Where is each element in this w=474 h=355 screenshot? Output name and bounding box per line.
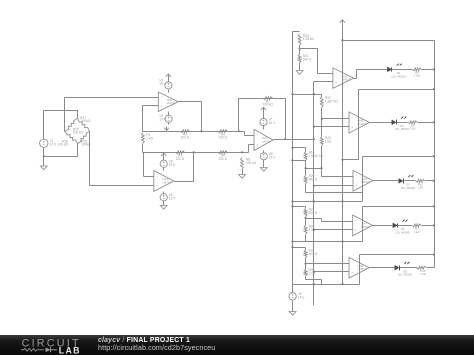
node Q — [341, 159, 343, 161]
wire OA1 inv input — [143, 106, 159, 132]
resistor R1 — [141, 133, 153, 144]
wire — [143, 152, 243, 154]
node V2 — [291, 240, 293, 242]
svg-text:−: − — [351, 261, 353, 265]
node J — [299, 48, 301, 50]
node AC — [305, 262, 307, 264]
wire OA2 output — [175, 153, 194, 182]
wire comp4 vcc — [363, 207, 435, 242]
node N — [321, 118, 323, 120]
svg-text:−: − — [335, 71, 337, 75]
node Z — [433, 205, 435, 207]
wire — [397, 122, 408, 124]
wire — [422, 69, 435, 71]
ground — [239, 175, 246, 179]
voltage source V5 — [160, 159, 176, 167]
resistor R4 — [218, 130, 228, 140]
wire — [305, 235, 307, 242]
wire — [163, 201, 165, 206]
node R — [433, 121, 435, 123]
wire — [285, 99, 287, 140]
node S5 — [291, 205, 293, 207]
wire — [293, 94, 322, 96]
wire comp3 vee link — [306, 192, 363, 194]
wire — [142, 144, 144, 153]
voltage source V3 — [159, 79, 172, 90]
node P — [433, 88, 435, 90]
svg-text:−: − — [355, 174, 357, 178]
LED D1 — [387, 64, 405, 79]
node S3 — [342, 200, 344, 202]
resistor R10 — [304, 151, 324, 161]
wire — [44, 110, 78, 112]
wire — [44, 156, 78, 158]
op-amp OA1 — [158, 92, 178, 111]
op-amp OA6 — [353, 170, 373, 191]
wire comp4 plus — [314, 229, 353, 231]
ground — [260, 168, 267, 172]
svg-text:+: + — [256, 143, 258, 147]
voltage source V4 — [159, 114, 172, 122]
wire right rail — [434, 41, 436, 268]
wire — [422, 225, 435, 227]
wire — [168, 90, 170, 93]
node T — [313, 185, 315, 187]
node R10a — [291, 147, 293, 149]
wire comp2 ref — [322, 118, 350, 120]
svg-text:LAB: LAB — [59, 345, 81, 355]
wire — [392, 69, 413, 71]
node S2 — [291, 200, 293, 202]
resistor R21 — [298, 54, 312, 63]
wire — [427, 267, 435, 269]
svg-text:+: + — [156, 184, 158, 188]
wire — [263, 151, 265, 153]
wire comp3 out — [373, 180, 399, 182]
node AE — [433, 254, 435, 256]
wire comp2 vcc — [359, 90, 435, 160]
ground — [296, 71, 303, 75]
svg-text:+: + — [355, 229, 357, 233]
svg-text:−: − — [355, 219, 357, 223]
resistor R22 — [320, 96, 338, 108]
flag VCC — [340, 20, 345, 24]
wire comp5 plus — [314, 271, 350, 273]
node U — [433, 155, 435, 157]
resistor R33 — [304, 268, 316, 276]
LED D4 — [393, 220, 410, 235]
node AB — [433, 224, 435, 226]
wire comp3 plus — [314, 185, 354, 187]
op-amp OA7 — [353, 215, 373, 236]
wire — [263, 126, 265, 130]
wire — [168, 112, 170, 116]
wire — [89, 132, 91, 186]
node F — [241, 151, 243, 153]
node W — [433, 180, 435, 182]
resistor R18 — [78, 131, 92, 146]
wire — [163, 192, 165, 194]
wire VEE return — [293, 201, 363, 203]
wire OA3 output — [274, 139, 314, 141]
resistor R17 — [77, 116, 91, 132]
ground — [40, 166, 47, 170]
wire comp1 plus — [314, 81, 333, 83]
wire — [293, 160, 306, 162]
wire — [263, 112, 265, 119]
ground — [289, 312, 296, 316]
wire — [293, 31, 300, 33]
wire — [242, 170, 244, 175]
voltage source V9 — [289, 292, 305, 300]
wire — [163, 158, 165, 161]
node I — [341, 39, 343, 41]
wire — [163, 168, 165, 171]
flag VEE — [164, 127, 169, 131]
wire — [43, 148, 45, 167]
svg-text:−: − — [256, 133, 258, 137]
wire comp2 out — [370, 122, 394, 124]
wire — [263, 160, 265, 168]
wire — [168, 123, 170, 125]
resistor R5 — [218, 151, 228, 161]
wire comp3 vcc — [363, 157, 435, 202]
wire comp4 ref — [306, 219, 353, 222]
wire — [306, 146, 322, 169]
resistor R29 — [304, 225, 316, 235]
resistor R15 — [65, 118, 83, 134]
wire — [400, 267, 418, 269]
node C — [200, 130, 202, 132]
wire — [143, 131, 239, 133]
voltage source V6 — [160, 193, 176, 201]
voltage source V7 — [260, 118, 276, 126]
resistor R7 — [263, 97, 274, 107]
wire VEE return2 — [293, 241, 363, 243]
wire — [77, 111, 79, 119]
wire comp4 out — [373, 225, 393, 227]
flag VCC — [166, 74, 171, 79]
node K — [433, 68, 435, 70]
node V4 — [291, 246, 293, 248]
resistor R27 — [304, 208, 318, 217]
svg-text:+: + — [335, 81, 337, 85]
svg-text:+: + — [355, 184, 357, 188]
wire — [398, 225, 412, 227]
wire — [243, 145, 255, 153]
wire OA1 output — [179, 102, 202, 132]
wire comp1 ref — [300, 49, 333, 74]
node G — [284, 138, 286, 140]
node D — [238, 130, 240, 132]
wire — [299, 63, 301, 71]
wire R31 feed — [293, 248, 306, 251]
resistor R16 — [58, 131, 78, 146]
wire — [239, 132, 255, 136]
node M — [313, 93, 315, 95]
wire — [306, 277, 322, 285]
node R10b — [291, 159, 293, 161]
wire — [43, 111, 45, 140]
svg-text:−: − — [156, 174, 158, 178]
wire — [305, 184, 307, 193]
resistor R8 — [412, 68, 421, 78]
resistor R2 — [180, 130, 190, 140]
wire — [293, 148, 306, 152]
node L — [291, 93, 293, 95]
op-amp OA3 — [254, 129, 273, 150]
voltage source V8 — [260, 152, 276, 160]
node AF — [313, 283, 315, 285]
wire — [305, 217, 307, 226]
wire bus1 — [292, 32, 294, 285]
wire — [90, 185, 154, 187]
LED D3 — [399, 175, 415, 190]
wire — [65, 98, 66, 132]
resistor R20 — [298, 34, 314, 46]
footer title text — [98, 337, 190, 344]
wire comp5 ref — [306, 263, 350, 265]
op-amp OA2 — [154, 171, 174, 192]
wire — [418, 122, 435, 124]
wire comp2 plus — [314, 126, 350, 128]
svg-text:−: − — [161, 95, 163, 99]
svg-text:+: + — [351, 126, 353, 130]
wire — [342, 24, 344, 285]
wire — [404, 180, 416, 182]
wire — [238, 99, 240, 132]
wire R27 feed — [293, 207, 306, 209]
node S — [305, 167, 307, 169]
wire V9 rail — [293, 284, 360, 286]
wire — [321, 95, 323, 97]
wire OA2 inv input — [144, 153, 154, 177]
node X — [305, 217, 307, 219]
resistor R11 — [416, 179, 425, 189]
wire — [305, 258, 307, 270]
resistor R12 — [412, 224, 421, 234]
node V3 — [342, 240, 344, 242]
flag VCC — [161, 153, 166, 158]
wire — [77, 144, 79, 157]
ground — [160, 206, 167, 210]
LED D2 — [392, 117, 409, 132]
wire — [321, 108, 323, 137]
CircuitLab logo — [0, 335, 96, 355]
resistor R25 — [304, 174, 318, 184]
wire — [292, 285, 294, 293]
resistor R6 — [241, 158, 257, 170]
resistor R23 — [320, 136, 332, 145]
node B — [77, 110, 79, 112]
node A — [43, 155, 45, 157]
node Y — [313, 229, 315, 231]
resistor R13 — [417, 266, 427, 276]
wire — [299, 46, 301, 55]
flag VCC — [261, 107, 266, 111]
wire comp1 out — [354, 70, 390, 79]
wire — [65, 97, 159, 99]
wire comp5 out — [370, 267, 397, 269]
wire comp5 vcc — [360, 255, 435, 285]
wire top rail — [343, 40, 435, 42]
node AG — [342, 283, 344, 285]
wire — [292, 301, 294, 312]
LED D5 — [395, 262, 412, 277]
resistor R3 — [175, 151, 185, 161]
wire — [168, 79, 170, 82]
wire — [239, 98, 286, 100]
op-amp OA5 — [349, 112, 370, 133]
svg-text:+: + — [351, 271, 353, 275]
wire — [426, 180, 435, 182]
svg-text:+: + — [161, 105, 163, 109]
node O — [313, 125, 315, 127]
resistor R9 — [408, 121, 417, 131]
node AD — [313, 271, 315, 273]
wire comp2 vee — [343, 159, 359, 161]
resistor R31 — [304, 249, 318, 258]
svg-text:−: − — [351, 116, 353, 120]
node E — [193, 151, 195, 153]
node S4 — [313, 200, 315, 202]
op-amp OA8 — [349, 257, 369, 278]
wire comp3 ref — [320, 167, 353, 176]
wire — [305, 161, 307, 176]
wire bus2 — [313, 82, 315, 306]
node H — [313, 138, 315, 140]
op-amp OA4 — [333, 68, 354, 88]
voltage source V1 — [40, 139, 57, 147]
